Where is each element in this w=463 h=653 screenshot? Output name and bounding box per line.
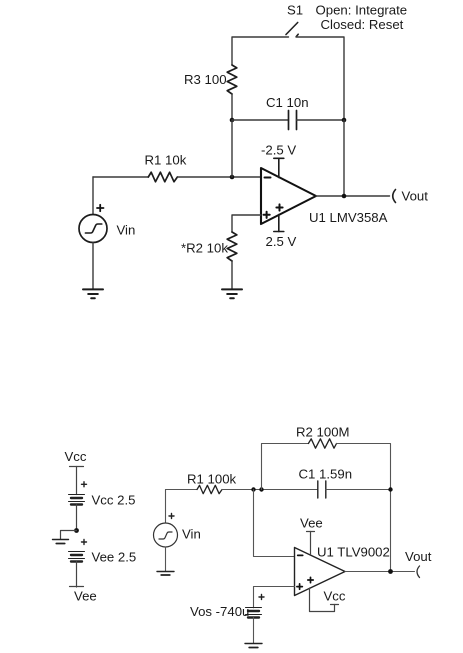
wire up to R2 feedback — [262, 444, 309, 490]
wire R3 to node — [231, 94, 233, 120]
svg-text:Vee: Vee — [300, 516, 323, 531]
wire node to C1 — [232, 119, 289, 121]
ground supply midpoint — [53, 540, 69, 544]
svg-text:R1 100k: R1 100k — [187, 472, 237, 487]
op-amp U1 triangle — [295, 548, 346, 596]
wire R2 to ground — [231, 261, 233, 289]
svg-text:Vcc 2.5: Vcc 2.5 — [92, 493, 136, 508]
capacitor C1 — [289, 111, 297, 130]
plus mark positive supply — [276, 204, 282, 210]
terminal Vee supply pin — [307, 532, 315, 555]
resistor R1 — [148, 172, 177, 182]
svg-text:Vos -740u: Vos -740u — [190, 604, 249, 619]
svg-text:Vout: Vout — [402, 189, 429, 204]
plus mark Vee battery — [82, 540, 87, 545]
wire node down from C1 node — [231, 120, 233, 177]
resistor R2 — [308, 439, 336, 448]
terminal Vout — [417, 566, 420, 578]
wire output — [316, 195, 390, 197]
terminal Vee — [70, 586, 84, 588]
plus mark Vin — [169, 514, 174, 519]
wire Vee battery to terminal — [76, 562, 78, 588]
source Vin — [154, 523, 178, 547]
wire C1 to right node — [297, 119, 345, 121]
wire R2 to output node — [337, 444, 391, 572]
wire midpoint to ground tap — [61, 531, 77, 540]
capacitor C1 — [318, 481, 326, 498]
svg-text:Vout: Vout — [405, 549, 432, 564]
svg-text:R2 100M: R2 100M — [296, 425, 350, 440]
resistor R1 — [197, 485, 222, 493]
svg-text:Closed: Reset: Closed: Reset — [321, 17, 404, 32]
terminal Vout — [393, 190, 396, 203]
wire right vertical to output — [343, 120, 345, 196]
node output junction — [388, 569, 393, 574]
svg-text:U1 LMV358A: U1 LMV358A — [309, 210, 388, 225]
minus mark inverting input — [265, 177, 271, 179]
svg-text:*R2 10k: *R2 10k — [181, 241, 228, 256]
plus mark Vin — [97, 205, 104, 211]
wire noninverting input — [232, 215, 261, 232]
svg-text:R3 100: R3 100 — [184, 72, 227, 87]
wire Vin to R1 — [93, 176, 148, 178]
svg-text:2.5 V: 2.5 V — [266, 234, 297, 249]
battery Vos — [246, 608, 262, 618]
terminal Vcc — [70, 467, 84, 495]
svg-text:Vcc: Vcc — [324, 589, 346, 604]
svg-text:C1 10n: C1 10n — [266, 95, 309, 110]
wire Vos to ground — [253, 618, 255, 644]
op-amp U1 triangle — [261, 168, 316, 224]
positive supply pin — [274, 215, 284, 232]
terminal Vcc supply pin — [310, 588, 339, 612]
svg-text:Vcc: Vcc — [65, 449, 87, 464]
wire Vin to ground — [165, 547, 167, 571]
plus mark Vos battery — [259, 595, 264, 600]
switch S1 — [286, 23, 298, 37]
node junction inverting — [230, 175, 235, 180]
plus mark Vcc battery — [82, 482, 87, 487]
node junction C1 right — [388, 487, 392, 491]
plus mark noninverting input — [297, 584, 302, 589]
ground under R2 — [222, 289, 242, 298]
ground under Vos — [245, 644, 262, 648]
plus mark noninverting input — [264, 212, 270, 218]
svg-text:Vin: Vin — [182, 527, 201, 542]
wire battery to midpoint — [76, 505, 78, 531]
svg-text:Vee: Vee — [74, 589, 97, 604]
node junction to feedback — [259, 487, 263, 491]
plus mark positive supply — [308, 577, 313, 582]
negative supply pin — [274, 158, 284, 177]
ground under Vin — [157, 572, 174, 576]
resistor R3 — [227, 65, 237, 94]
node output junction — [342, 194, 347, 199]
battery Vcc 2.5 — [69, 495, 85, 505]
svg-text:Open: Integrate: Open: Integrate — [316, 3, 408, 18]
wire Vin to ground — [92, 243, 94, 290]
minus mark inverting input — [298, 554, 303, 556]
wire R1 to inverting input — [177, 176, 261, 178]
svg-text:Vee 2.5: Vee 2.5 — [92, 550, 137, 565]
svg-text:U1 TLV9002: U1 TLV9002 — [317, 545, 390, 560]
node junction to inverting input — [251, 487, 255, 491]
wire noninverting input — [254, 587, 295, 608]
svg-text:C1 1.59n: C1 1.59n — [299, 467, 353, 482]
wire Vin to R1 — [166, 489, 198, 491]
node midpoint junction — [74, 528, 79, 533]
battery Vee 2.5 — [69, 552, 85, 562]
svg-text:S1: S1 — [287, 3, 303, 18]
wire down to inverting input — [254, 490, 295, 557]
wire switch to right corner down — [296, 37, 344, 120]
svg-text:-2.5 V: -2.5 V — [261, 143, 296, 158]
wire R1 to summing node — [222, 489, 318, 491]
wire C1 to feedback vertical — [326, 489, 391, 491]
node junction left of C1 — [230, 118, 235, 123]
wire top-left horizontal to switch — [232, 37, 289, 65]
resistor R2 — [227, 232, 237, 261]
svg-text:R1 10k: R1 10k — [145, 153, 187, 168]
wire output — [345, 571, 415, 573]
ground under Vin — [83, 289, 103, 298]
wire Vin vertical — [92, 177, 94, 215]
wire Vin top — [165, 490, 167, 524]
svg-text:Vin: Vin — [117, 223, 136, 238]
node junction right of C1 — [342, 118, 347, 123]
source Vin — [79, 215, 107, 243]
